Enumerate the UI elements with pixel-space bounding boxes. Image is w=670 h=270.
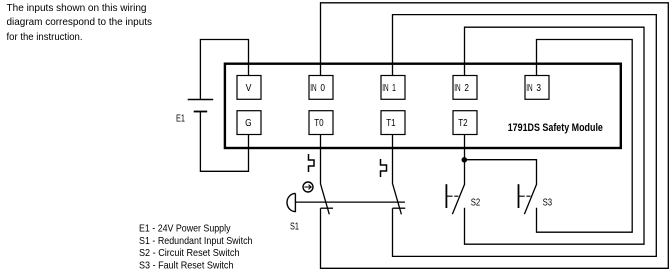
svg-text:IN: IN (526, 83, 532, 94)
svg-text:T0: T0 (314, 118, 324, 129)
svg-text:V: V (246, 83, 252, 94)
svg-text:3: 3 (536, 83, 541, 94)
svg-text:1: 1 (392, 83, 396, 94)
svg-text:diagram correspond to the inpu: diagram correspond to the inputs (7, 17, 153, 28)
svg-text:S1 - Redundant Input Switch: S1 - Redundant Input Switch (139, 236, 253, 247)
svg-text:S3 - Fault Reset Switch: S3 - Fault Reset Switch (139, 260, 234, 270)
svg-text:S3: S3 (543, 197, 553, 208)
svg-text:0: 0 (320, 83, 325, 94)
svg-text:E1 - 24V Power Supply: E1 - 24V Power Supply (139, 224, 231, 235)
svg-text:The inputs shown on this wirin: The inputs shown on this wiring (7, 3, 147, 14)
svg-text:S2 - Circuit Reset Switch: S2 - Circuit Reset Switch (139, 248, 240, 259)
svg-text:T2: T2 (458, 118, 468, 129)
svg-text:E1: E1 (176, 113, 185, 124)
svg-text:for the instruction.: for the instruction. (7, 32, 83, 43)
svg-text:2: 2 (464, 83, 469, 94)
svg-text:IN: IN (382, 83, 388, 94)
svg-text:S2: S2 (471, 197, 481, 208)
svg-text:T1: T1 (386, 118, 396, 129)
svg-text:G: G (245, 118, 252, 129)
svg-text:1791DS Safety Module: 1791DS Safety Module (508, 122, 603, 134)
svg-text:IN: IN (454, 83, 460, 94)
svg-text:IN: IN (310, 83, 316, 94)
svg-text:S1: S1 (290, 221, 299, 232)
